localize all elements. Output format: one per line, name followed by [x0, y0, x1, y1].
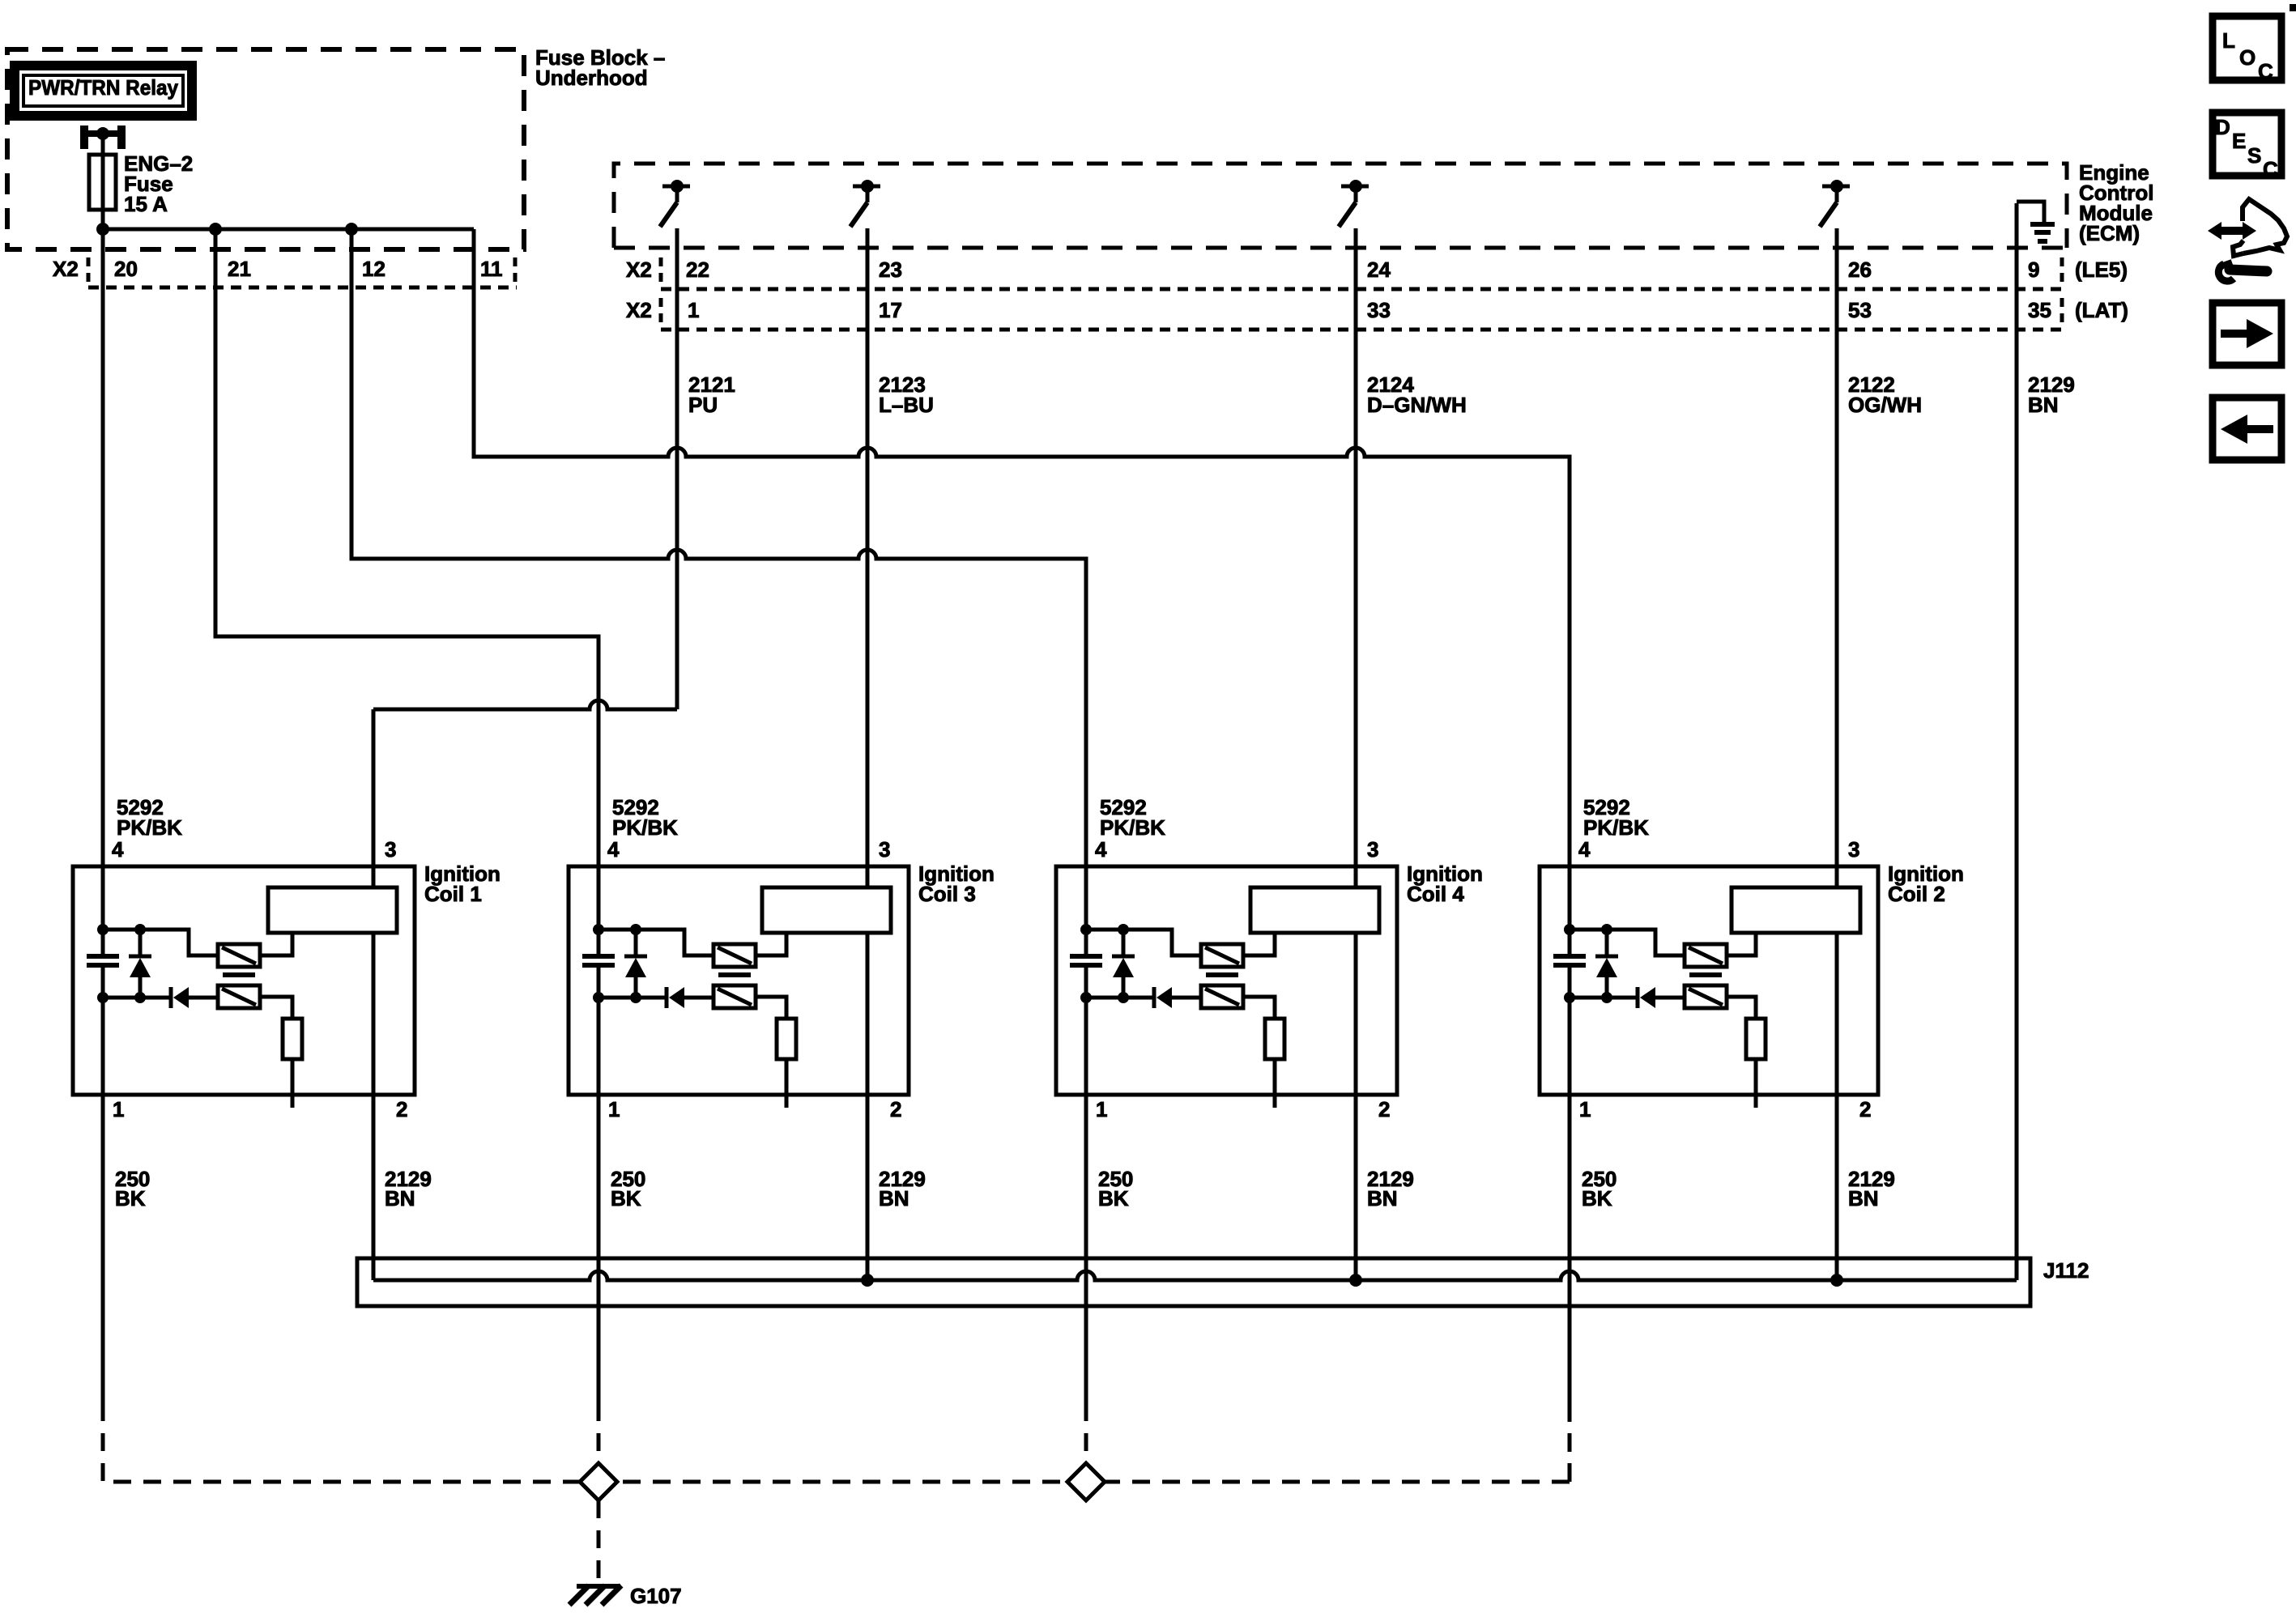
svg-text:BK: BK [115, 1186, 146, 1211]
J112 bus outer box [357, 1258, 2030, 1306]
svg-text:BK: BK [1582, 1186, 1612, 1211]
coil 2 internal top wire [1570, 930, 1685, 955]
relay K1 PWR/TRN Relay box [15, 66, 192, 116]
icon back-arrow box [2213, 398, 2281, 460]
svg-text:4: 4 [607, 837, 620, 862]
svg-text:2: 2 [1378, 1097, 1390, 1121]
junction dot relay terminal [96, 127, 109, 140]
ECM dashed box [614, 164, 2067, 248]
wire 2121 vertical from ECM pin22 [675, 228, 679, 709]
coil 1 resistor stub [291, 1059, 295, 1108]
ECM driver symbol for wire at x=2268 [1822, 185, 1850, 189]
splice diamond S1 [580, 1463, 617, 1500]
svg-text:4: 4 [1578, 837, 1591, 862]
svg-text:22: 22 [686, 257, 709, 282]
coil 1 pin3 wire segment [372, 886, 376, 890]
svg-text:BK: BK [1098, 1186, 1129, 1211]
ECM connector row right separator row2 [2060, 298, 2064, 326]
svg-text:21: 21 [228, 257, 251, 281]
coil 2 pin4/cap/pin1 wire [1568, 953, 1572, 957]
svg-text:20: 20 [114, 257, 138, 281]
ECM driver symbol for wire at x=1674 [1341, 185, 1369, 189]
coil 2 node dots top [1564, 924, 1575, 935]
coil 2 secondary winding low [1685, 985, 1727, 1008]
wire pin20 to coil1 pin4 upper [101, 229, 105, 955]
svg-text:3: 3 [1848, 837, 1859, 862]
coil 3 secondary right link [756, 997, 786, 1019]
svg-text:O: O [2239, 45, 2256, 70]
coil 2 primary right link [1727, 933, 1756, 955]
coil2 pin1 dashed corner [1568, 1403, 1572, 1482]
coil 1 internal top wire [103, 930, 218, 955]
J112 bus inner wire [373, 1271, 2017, 1280]
coil 4 pin1 dashed to ground line [1084, 1403, 1088, 1482]
svg-text:BN: BN [1848, 1186, 1879, 1211]
svg-text:2: 2 [396, 1097, 407, 1121]
wire 2121 horizontal to coil1 pin3 [373, 700, 677, 709]
svg-text:2: 2 [890, 1097, 901, 1121]
ECM internal ground wire stub [2017, 202, 2044, 222]
coil 3 diode [665, 987, 669, 1008]
svg-text:4: 4 [1095, 837, 1107, 862]
coil 4 secondary winding low [1201, 985, 1243, 1008]
svg-text:BN: BN [385, 1186, 415, 1211]
coil 3 internal bottom wire [598, 996, 667, 1000]
svg-text:PU: PU [688, 393, 718, 417]
svg-text:D–GN/WH: D–GN/WH [1367, 393, 1467, 417]
coil 1 secondary winding low [218, 985, 260, 1008]
relay terminal clip [80, 126, 88, 149]
svg-text:12: 12 [362, 257, 386, 281]
coil 2 resistor stub [1754, 1059, 1758, 1108]
icon back-arrow [2241, 425, 2273, 433]
coil 4 node dots top [1080, 924, 1092, 935]
svg-text:D: D [2215, 115, 2230, 139]
coil 3 primary right link [756, 933, 786, 955]
coil 2 secondary right link [1727, 997, 1756, 1019]
coil 3 resistor [777, 1019, 796, 1059]
svg-text:X2: X2 [53, 257, 79, 281]
svg-text:OG/WH: OG/WH [1848, 393, 1922, 417]
wire pin12 to coil4 pin4 [351, 229, 1086, 955]
svg-text:24: 24 [1367, 257, 1391, 282]
svg-text:Coil 4: Coil 4 [1407, 882, 1464, 906]
coil 4 primary winding [1201, 944, 1243, 967]
coil 3 internal top wire [598, 930, 714, 955]
svg-text:3: 3 [879, 837, 890, 862]
coil 3 primary winding [714, 944, 756, 967]
wire 2124 ECM pin24 to coil4 pin3 [1354, 228, 1358, 887]
svg-text:23: 23 [879, 257, 902, 282]
coil 4 primary right link [1243, 933, 1275, 955]
ECM connector row line1 [661, 287, 2062, 291]
wire pin21 to coil3 pin4 [215, 229, 598, 955]
coil 2 node dots bottom [1564, 992, 1575, 1003]
svg-text:X2: X2 [626, 298, 652, 322]
icon next-arrow box [2213, 303, 2281, 365]
svg-text:33: 33 [1367, 298, 1391, 322]
ECM connector row right separator row1 [2060, 257, 2064, 285]
icon hand outline [2243, 199, 2287, 253]
wire feed bus [103, 228, 474, 232]
svg-text:G107: G107 [630, 1584, 682, 1608]
svg-text:Coil 1: Coil 1 [424, 882, 482, 906]
coil 1 node dots bottom [97, 992, 109, 1003]
coil 3 pin4/cap/pin1 wire [597, 953, 601, 957]
svg-text:1: 1 [113, 1097, 124, 1121]
icon wrench [2218, 264, 2234, 281]
ignition coil 4 box [1056, 866, 1397, 1095]
wire 2129 ECM ground to splice bus [2015, 203, 2019, 1280]
svg-text:PK/BK: PK/BK [1100, 815, 1165, 840]
svg-text:26: 26 [1848, 257, 1872, 282]
page corner tick [2290, 4, 2296, 11]
coil 3 secondary HV winding box [762, 887, 891, 933]
connector row X2 fuse block bottom line [88, 286, 517, 290]
svg-text:1: 1 [1579, 1097, 1591, 1121]
coil4 pin1 dashed to diamond [1084, 1403, 1088, 1463]
coil 2 primary winding [1685, 944, 1727, 967]
fuse ENG-2 15A [89, 155, 116, 210]
G107 ground symbol [577, 1584, 620, 1589]
svg-text:(LE5): (LE5) [2075, 257, 2128, 282]
svg-text:53: 53 [1848, 298, 1872, 322]
junction dot coil3 BN [861, 1274, 874, 1287]
fuse block underhood dashed box [7, 49, 524, 249]
wire pin11 to coil2 pin4 [474, 229, 1570, 955]
svg-text:PK/BK: PK/BK [1583, 815, 1649, 840]
coil 1 transformer core [223, 972, 255, 977]
coil 1 secondary HV winding box [268, 887, 397, 933]
coil 3 resistor stub [785, 1059, 789, 1108]
svg-text:X2: X2 [626, 257, 652, 282]
svg-text:Underhood: Underhood [535, 66, 648, 90]
coil 4 secondary right link [1243, 997, 1275, 1019]
ECM connector row separator X2 row1 [659, 257, 663, 285]
coil 4 zener diode [1112, 955, 1135, 959]
svg-text:4: 4 [112, 837, 124, 862]
junction dot fuse bus [96, 223, 109, 236]
svg-text:15 A: 15 A [124, 192, 168, 216]
svg-text:11: 11 [480, 257, 503, 281]
coil 3 pin1 dashed to ground line [597, 1403, 601, 1463]
splice diamond S2 [1067, 1463, 1105, 1500]
svg-text:S: S [2247, 143, 2261, 168]
ECM connector row line2 [661, 328, 2062, 332]
icon double arrow [2219, 227, 2245, 235]
svg-text:(ECM): (ECM) [2079, 221, 2140, 245]
coil 4 transformer core [1206, 972, 1238, 977]
ignition coil 1 box [73, 866, 415, 1095]
svg-text:BN: BN [1367, 1186, 1398, 1211]
coil 1 pin4/cap/pin1 wire [101, 953, 105, 957]
coil 1 diode [169, 987, 173, 1008]
ECM driver symbol for wire at x=836 [662, 185, 690, 189]
svg-text:35: 35 [2028, 298, 2051, 322]
svg-text:C: C [2258, 59, 2273, 83]
coil 4 capacitor [1070, 954, 1102, 959]
coil 2 pin3 wire segment [1835, 886, 1839, 890]
coil 2 transformer core [1689, 972, 1722, 977]
svg-text:1: 1 [608, 1097, 620, 1121]
ECM driver symbol for wire at x=1071 [853, 185, 880, 189]
wire relay to fuse to bus [101, 134, 105, 229]
coil 4 pin3 wire segment [1354, 886, 1358, 890]
coil 1 resistor [283, 1019, 302, 1059]
coil 1 primary winding [218, 944, 260, 967]
coil 3 secondary winding low [714, 985, 756, 1008]
coil 4 diode [1152, 987, 1157, 1008]
svg-text:(LAT): (LAT) [2075, 298, 2128, 322]
coil 2 diode [1636, 987, 1640, 1008]
coil 3 node dots top [593, 924, 604, 935]
connector row X2 fuse block separator right [513, 257, 518, 285]
coil 2 pin1 dashed to ground line [1568, 1403, 1572, 1482]
wire 2121 drop to coil1 pin3 [372, 709, 376, 887]
coil 4 pin4/cap/pin1 wire [1084, 953, 1088, 957]
coil 4 secondary HV winding box [1250, 887, 1379, 933]
svg-text:Coil 2: Coil 2 [1888, 882, 1945, 906]
ECM ground symbol [2030, 222, 2055, 227]
junction dot bus pin12 [345, 223, 358, 236]
ignition coil 2 box [1540, 866, 1878, 1095]
wire 2122 ECM pin26 to coil2 pin3 [1835, 228, 1839, 887]
svg-text:E: E [2232, 129, 2246, 153]
coil 1 internal bottom wire [103, 996, 171, 1000]
ignition coil 3 box [569, 866, 909, 1095]
icon next-arrow [2221, 330, 2253, 338]
coil 1 primary right link [260, 933, 292, 955]
svg-text:3: 3 [385, 837, 396, 862]
wire diamond to G107 dashed [597, 1500, 601, 1581]
svg-text:3: 3 [1367, 837, 1378, 862]
coil 2 secondary HV winding box [1732, 887, 1860, 933]
coil 1 capacitor [87, 954, 119, 959]
icon LOC box [2213, 16, 2281, 80]
ground dashed line [103, 1480, 1570, 1484]
svg-text:C: C [2263, 157, 2278, 181]
coil 3 pin3 wire segment [866, 886, 870, 890]
coil 1 node dots top [97, 924, 109, 935]
coil 4 resistor stub [1273, 1059, 1277, 1108]
ECM connector row separator X2 row2 [659, 298, 663, 326]
coil 4 resistor [1265, 1019, 1284, 1059]
svg-text:BN: BN [2028, 393, 2059, 417]
svg-text:L–BU: L–BU [879, 393, 934, 417]
coil 3 capacitor [582, 954, 615, 959]
svg-text:1: 1 [688, 298, 699, 322]
coil 3 zener diode [624, 955, 647, 959]
coil 2 zener diode [1595, 955, 1618, 959]
svg-text:PWR/TRN Relay: PWR/TRN Relay [28, 75, 179, 100]
svg-text:1: 1 [1096, 1097, 1107, 1121]
svg-text:17: 17 [879, 298, 902, 322]
svg-text:PK/BK: PK/BK [612, 815, 678, 840]
coil 2 internal bottom wire [1570, 996, 1638, 1000]
junction dot coil4 BN [1349, 1274, 1362, 1287]
junction dot bus pin21 [209, 223, 222, 236]
coil 1 pin1 dashed to ground line [101, 1403, 105, 1482]
coil 4 node dots bottom [1080, 992, 1092, 1003]
connector row X2 fuse block separator left [87, 257, 91, 285]
coil 1 secondary right link [260, 997, 292, 1019]
svg-text:J112: J112 [2043, 1258, 2089, 1283]
icon DESC box [2213, 113, 2281, 176]
svg-text:BN: BN [879, 1186, 909, 1211]
svg-text:Coil 3: Coil 3 [918, 882, 976, 906]
coil 4 internal top wire [1086, 930, 1201, 955]
svg-text:2: 2 [1859, 1097, 1871, 1121]
coil 2 capacitor [1553, 954, 1586, 959]
coil 4 internal bottom wire [1086, 996, 1154, 1000]
svg-text:BK: BK [611, 1186, 641, 1211]
svg-text:L: L [2222, 28, 2235, 53]
svg-text:9: 9 [2028, 257, 2039, 282]
svg-text:PK/BK: PK/BK [117, 815, 182, 840]
wire 2123 ECM pin23 to coil3 pin3 [866, 228, 870, 887]
coil 1 zener diode [129, 955, 151, 959]
junction dot coil2 BN [1830, 1274, 1843, 1287]
coil 3 node dots bottom [593, 992, 604, 1003]
coil 3 transformer core [718, 972, 751, 977]
coil 2 resistor [1746, 1019, 1766, 1059]
